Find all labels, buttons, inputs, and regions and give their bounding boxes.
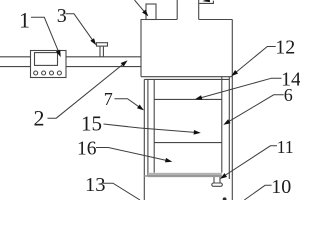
- svg-text:7: 7: [104, 89, 113, 109]
- hood top edge right: [199, 19, 233, 21]
- leader for label 7: [115, 99, 143, 110]
- arrowhead label 16: [165, 158, 172, 163]
- leader for label 12: [233, 47, 276, 75]
- wire inlet pipe left lower: [0, 66, 31, 68]
- svg-text:16: 16: [77, 139, 97, 160]
- svg-text:2: 2: [34, 106, 45, 131]
- arrowhead label 2: [121, 60, 128, 66]
- arrowhead label 3: [90, 38, 96, 45]
- controller display screen: [35, 53, 58, 66]
- hood left wall: [140, 20, 142, 77]
- vessel left wall inner line: [147, 79, 149, 175]
- svg-text:13: 13: [85, 174, 106, 196]
- basket left wall: [153, 79, 155, 172]
- controller button 4: [57, 71, 61, 75]
- vessel right wall outer line: [228, 77, 230, 179]
- leader for label 15: [104, 124, 199, 133]
- controller button 3: [50, 71, 54, 75]
- leader for label 1: [31, 17, 60, 54]
- arrowhead label 12: [231, 70, 238, 76]
- leader for label 6: [225, 95, 284, 124]
- leader for label 3: [66, 14, 95, 43]
- shell right wall: [231, 20, 233, 201]
- shelf upper: [154, 98, 222, 100]
- arrowhead top-left port: [142, 10, 148, 17]
- valve stem right: [102, 46, 104, 57]
- svg-text:3: 3: [57, 5, 67, 27]
- svg-text:1: 1: [19, 8, 30, 33]
- arrowhead label 14: [195, 95, 202, 100]
- wire pipe lower to tank: [66, 66, 141, 68]
- top inlet port box: [146, 4, 156, 20]
- svg-text:6: 6: [284, 85, 293, 105]
- leader for label 13: [103, 183, 140, 200]
- duct left wall: [176, 0, 178, 20]
- controller box body: [31, 51, 67, 78]
- valve cap bar: [97, 43, 108, 46]
- arrowhead top-right port: [202, 0, 210, 2]
- drain stem left: [213, 177, 215, 183]
- vessel rim upper: [141, 76, 232, 78]
- vessel right wall inner line: [221, 77, 223, 173]
- arrowhead label 6: [223, 119, 230, 125]
- arrowhead label 1: [56, 50, 61, 57]
- svg-text:10: 10: [271, 176, 291, 198]
- shelf lower: [154, 142, 222, 144]
- svg-text:12: 12: [275, 37, 295, 59]
- vessel rim lower: [144, 78, 229, 80]
- vessel left wall outer line: [143, 79, 145, 200]
- controller button 1: [34, 71, 38, 75]
- leader for label 10: [244, 185, 271, 200]
- controller button 2: [42, 71, 46, 75]
- svg-text:11: 11: [277, 137, 294, 157]
- top right port line: [199, 1, 213, 4]
- leader for top-left port: [135, 0, 148, 15]
- leader tick top-right port: [204, 0, 210, 2]
- arrowhead label 7: [137, 105, 144, 111]
- leader for label 14: [198, 78, 282, 98]
- bottom cut-off glyph: [223, 197, 227, 201]
- svg-text:15: 15: [81, 112, 102, 136]
- hood top edge left: [141, 19, 178, 21]
- vessel bottom plate band: [148, 173, 222, 177]
- drain stem right: [219, 177, 221, 183]
- leader for label 16: [96, 148, 170, 162]
- drain foot: [212, 183, 223, 186]
- leader for label 11: [222, 146, 277, 178]
- wire pipe upper to tank: [66, 56, 141, 58]
- duct right wall: [198, 0, 200, 20]
- arrowhead label 15: [194, 130, 201, 135]
- leader for label 2: [48, 62, 126, 118]
- wire inlet pipe left upper: [0, 56, 31, 58]
- valve stem left: [99, 46, 101, 57]
- arrowhead label 11: [220, 173, 227, 179]
